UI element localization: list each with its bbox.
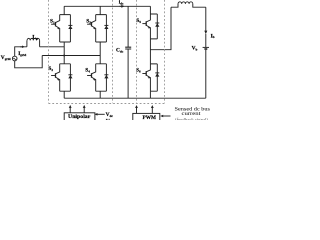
transistor Q4: [87, 64, 106, 91]
wire: inductor to left leg: [40, 46, 65, 48]
diode Q2: [68, 64, 72, 91]
control section: [64, 105, 210, 125]
dashed bottom edge: [49, 103, 166, 105]
sensed current arrow: [160, 115, 170, 118]
wire: loop top right: [193, 4, 206, 7]
svg-text:PWM: PWM: [143, 115, 157, 120]
gate arrow chopper 1: [135, 105, 138, 113]
svg-text:Va: Va: [106, 119, 112, 121]
current arrow Ib: [204, 31, 207, 35]
transistor Q2: [51, 64, 70, 91]
wire: loop top left: [171, 4, 178, 7]
wire: left leg: [63, 6, 65, 98]
source V_grid (ac): [12, 56, 17, 61]
current arrow Igrid: [20, 46, 25, 49]
gate arrow bridge 1: [69, 105, 72, 113]
diode Q5: [155, 14, 159, 39]
wire: bottom dc- rail: [64, 97, 206, 99]
gate arrow bridge 2: [83, 105, 86, 113]
diode Q1: [68, 15, 72, 42]
svg-text:Unipolar: Unipolar: [68, 114, 91, 120]
svg-text:Lg: Lg: [32, 34, 38, 40]
capacitor Cdc: [125, 6, 131, 98]
svg-text:Igrid: Igrid: [18, 51, 26, 57]
current arrow idc: [120, 5, 125, 8]
svg-text:Ib: Ib: [211, 33, 215, 39]
svg-text:(feedback signal): (feedback signal): [175, 118, 208, 120]
svg-text:S1: S1: [50, 18, 55, 24]
transistor Q3: [87, 15, 106, 42]
wire: chopper leg: [149, 6, 151, 98]
inductor battery: [178, 2, 193, 4]
svg-text:Vdc: Vdc: [106, 112, 114, 118]
diode Q4: [104, 64, 108, 91]
box unipolar PWM: [64, 113, 95, 122]
battery Vb: [203, 47, 209, 49]
gate arrow chopper 2: [151, 105, 154, 113]
dashed partition lines: [49, 0, 166, 104]
transistor Q6: [142, 64, 157, 91]
dashed box bridge left: [48, 0, 50, 103]
dashed box chopper right: [164, 0, 166, 103]
inductor Lg: [27, 38, 40, 46]
Vdc feedback arrow: [95, 113, 105, 116]
svg-text:Cdc: Cdc: [116, 47, 124, 53]
dashed box chopper left: [136, 0, 138, 103]
transistor Q1: [51, 15, 70, 42]
wire: right leg: [99, 6, 101, 98]
wire: source to inductor: [15, 47, 27, 56]
wire: top dc+ rail: [64, 5, 150, 7]
diode Q6: [155, 64, 159, 91]
wire: arrow to battery: [205, 34, 207, 47]
node: crossing dot at left leg: [63, 55, 65, 57]
box PWM: [133, 113, 160, 122]
svg-text:idc: idc: [119, 0, 124, 6]
svg-text:S4: S4: [85, 68, 90, 74]
dashed box bridge right: [112, 0, 114, 103]
wire: battery to bottom rail: [205, 50, 207, 98]
svg-text:Vb: Vb: [192, 46, 198, 52]
svg-text:S3: S3: [86, 18, 91, 24]
transistor Q5: [142, 14, 157, 39]
diode Q3: [104, 15, 108, 42]
wire: chopper midpoint to battery branch: [150, 7, 171, 50]
wire: battery right side upper: [205, 7, 207, 31]
wire: source bottom return: [15, 56, 43, 68]
svg-text:current: current: [182, 112, 202, 117]
wire: phase B to right leg: [42, 55, 100, 57]
svg-text:S2: S2: [48, 66, 53, 72]
svg-text:Vgrid: Vgrid: [1, 55, 11, 61]
